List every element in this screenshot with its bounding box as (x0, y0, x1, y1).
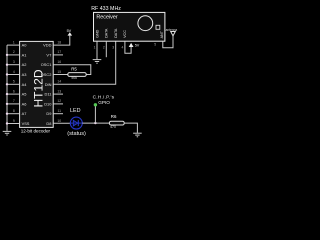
svg-text:18: 18 (57, 40, 61, 44)
svg-text:OSC2: OSC2 (41, 72, 52, 77)
svg-text:2: 2 (13, 50, 15, 54)
svg-text:DIN: DIN (45, 82, 52, 87)
wire DIN from receiver DATA (53, 41, 115, 84)
svg-text:VDD: VDD (43, 43, 51, 48)
crystal square (156, 25, 160, 29)
junction dot bus pin3 (6, 63, 8, 65)
svg-text:D11: D11 (45, 92, 52, 97)
svg-text:D10: D10 (44, 101, 52, 106)
svg-text:3: 3 (13, 60, 15, 64)
svg-text:3: 3 (112, 45, 114, 49)
svg-text:15: 15 (57, 70, 61, 74)
wire RX VCC pin to 5V (125, 41, 131, 53)
svg-text:16: 16 (57, 60, 61, 64)
wire RX DATA pin2 stub (105, 41, 107, 57)
power 5V symbol left (67, 29, 73, 36)
wire D8 to LED (53, 122, 70, 124)
junction dot bus pin7 (6, 103, 8, 105)
svg-text:4: 4 (122, 45, 124, 49)
svg-text:7: 7 (13, 99, 15, 103)
svg-text:VSS: VSS (22, 121, 30, 126)
svg-text:LED: LED (70, 108, 81, 114)
wire LED to R6 (82, 122, 109, 124)
svg-text:A6: A6 (22, 101, 27, 106)
svg-text:GPIO: GPIO (98, 100, 110, 105)
power 5V symbol right (129, 43, 140, 47)
svg-text:1: 1 (94, 45, 96, 49)
wire pin1 A0 stub (7, 44, 20, 46)
svg-text:50k: 50k (71, 76, 77, 80)
svg-text:5V: 5V (135, 43, 140, 47)
junction dot bus pin8 (6, 113, 8, 115)
svg-text:5: 5 (13, 80, 15, 84)
svg-text:13: 13 (57, 89, 61, 93)
wire D10 stub (53, 103, 63, 105)
svg-text:R5: R5 (71, 67, 77, 72)
svg-text:A4: A4 (22, 82, 28, 87)
svg-text:R6: R6 (111, 114, 117, 119)
wire VT stub (53, 54, 63, 56)
svg-text:Receiver: Receiver (96, 14, 117, 20)
svg-text:(status): (status) (67, 131, 86, 137)
LED D1 status (70, 117, 82, 129)
svg-text:ANT: ANT (160, 30, 164, 38)
svg-text:5: 5 (154, 43, 156, 47)
coil circle (138, 16, 153, 31)
svg-text:1: 1 (13, 40, 15, 44)
svg-text:VCC: VCC (123, 30, 127, 38)
wire OSC1 loop to R5 (53, 65, 91, 75)
wire RX ANT pin to antenna (163, 36, 173, 48)
svg-text:A2: A2 (22, 62, 27, 67)
svg-text:OSC1: OSC1 (41, 62, 52, 67)
wire D11 stub (53, 93, 63, 95)
IC U1 HT12D body (20, 41, 54, 127)
wire GPIO riser (94, 105, 96, 123)
ground symbol R6 (133, 133, 142, 137)
wire D9 stub (53, 113, 63, 115)
svg-text:17: 17 (57, 50, 61, 54)
module RX1 RF receiver box (94, 12, 165, 41)
svg-text:antenna: antenna (166, 28, 178, 32)
svg-text:5V: 5V (67, 29, 72, 33)
svg-text:6: 6 (13, 89, 15, 93)
svg-text:10: 10 (57, 119, 61, 123)
wire address bus vertical (6, 45, 8, 131)
wire pin4 A3 stub (7, 74, 20, 76)
svg-text:VT: VT (46, 52, 52, 57)
svg-text:D8: D8 (46, 121, 51, 126)
svg-text:2: 2 (103, 45, 105, 49)
wire pin8 A7 stub (7, 113, 20, 115)
antenna AE1 (166, 28, 178, 36)
junction dot bus pin2 (6, 54, 8, 56)
junction dot GPIO tap (94, 122, 96, 124)
svg-text:A7: A7 (22, 111, 27, 116)
svg-text:12: 12 (57, 99, 61, 103)
svg-text:DATA: DATA (105, 28, 109, 38)
svg-text:11: 11 (58, 109, 62, 113)
wire pin5 A4 stub (7, 83, 20, 85)
svg-text:A1: A1 (22, 52, 27, 57)
junction dot bus pin9 (6, 122, 8, 124)
wire pin3 A2 stub (7, 64, 20, 66)
svg-text:470: 470 (110, 125, 116, 129)
svg-text:A3: A3 (22, 72, 27, 77)
svg-text:GND: GND (95, 29, 99, 38)
svg-text:8: 8 (13, 109, 15, 113)
wire RX GND pin to ground (96, 41, 98, 59)
svg-text:A0: A0 (22, 43, 28, 48)
svg-text:A5: A5 (22, 92, 27, 97)
wire pin7 A6 stub (7, 103, 20, 105)
wire R6 to ground (124, 123, 137, 133)
resistor R5 body (68, 73, 86, 77)
ground symbol bus (3, 131, 12, 135)
junction dot bus pin6 (6, 93, 8, 95)
ground symbol RX (93, 60, 102, 64)
resistor R6 body (109, 121, 124, 125)
wire VDD to 5V (53, 36, 70, 46)
wire pin9 VSS stub (7, 123, 20, 125)
svg-text:RF 433 MHz: RF 433 MHz (91, 6, 121, 12)
svg-text:12-bit decoder: 12-bit decoder (21, 129, 51, 134)
svg-text:D9: D9 (46, 111, 51, 116)
node C.H.I.P.'s GPIO terminal (94, 103, 97, 106)
svg-text:9: 9 (13, 119, 15, 123)
svg-text:14: 14 (57, 80, 61, 84)
svg-text:4: 4 (13, 70, 15, 74)
wire pin6 A5 stub (7, 93, 20, 95)
svg-text:DATA: DATA (114, 28, 118, 38)
wire OSC2 to R5 (53, 74, 68, 76)
wire pin2 A1 stub (7, 54, 20, 56)
junction dot bus pin5 (6, 83, 8, 85)
junction dot bus pin4 (6, 73, 8, 75)
